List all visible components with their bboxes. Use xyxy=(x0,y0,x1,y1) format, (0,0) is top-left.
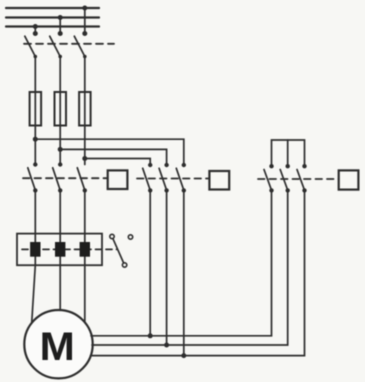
trip linkage (dashed) xyxy=(22,248,117,250)
star bridge bar K3 xyxy=(272,140,305,166)
mechanical link K2 (dashed) xyxy=(137,178,209,180)
disconnect switch Q1 pole 1 xyxy=(25,36,37,58)
mechanical link Q1 (dashed) xyxy=(24,43,114,45)
contactor K2 pole 1 xyxy=(143,163,153,193)
wire overload to motor 3 xyxy=(84,265,86,322)
heater element 3 xyxy=(80,243,89,257)
wire motor terminal 2 to K3 pole2 xyxy=(92,190,288,345)
coil K3 xyxy=(339,170,359,189)
wire bridge middle stub xyxy=(287,140,289,166)
trip contact terminal bottom xyxy=(122,263,126,267)
wire K2 pole1 down xyxy=(149,190,151,335)
overload trip contact blade xyxy=(113,239,124,263)
contactor K1 pole 3 xyxy=(77,168,87,193)
node switch top 3 xyxy=(82,31,87,36)
bus bar L3 xyxy=(6,25,99,27)
mechanical link K1 (dashed) xyxy=(23,177,108,179)
fuse F3 xyxy=(79,92,91,126)
node branch A1 xyxy=(33,137,38,142)
wire branch line 3 to K2 pole 1 xyxy=(85,159,150,166)
coil K2 xyxy=(209,171,229,190)
node U2 junction xyxy=(164,343,169,348)
node branch A3 xyxy=(82,156,87,161)
wire K2 pole2 down xyxy=(166,190,168,345)
wire branch line 1 to K2 pole 3 xyxy=(35,139,184,165)
contactor K3 pole 3 xyxy=(297,164,307,193)
contactor K1 pole 2 xyxy=(53,162,63,192)
coil K1 xyxy=(108,170,128,189)
node V2 junction xyxy=(181,353,186,358)
contactor K2 pole 3 xyxy=(176,163,186,193)
wire motor terminal 3 to K3 pole3 xyxy=(91,190,305,355)
fuse F2 xyxy=(55,92,67,126)
wire phase 1 switch to contactor K1 xyxy=(34,57,36,165)
disconnect switch Q1 pole 2 xyxy=(50,36,62,58)
wire tap phase 1 xyxy=(34,27,36,34)
node tap L1 xyxy=(82,6,87,11)
disconnect switch Q1 pole 3 xyxy=(74,36,86,58)
mechanical link K3 (dashed) xyxy=(258,178,339,180)
contactor K3 pole 2 xyxy=(280,164,290,193)
node W2 junction xyxy=(148,333,153,338)
motor M1 xyxy=(24,310,92,378)
wire through overload 2 xyxy=(59,234,61,266)
wire overload to motor 2 xyxy=(59,265,61,310)
wire overload to motor 1 xyxy=(32,265,36,323)
wire phase 3 switch to contactor K1 xyxy=(84,57,86,165)
heater element 1 xyxy=(31,243,40,257)
wire branch line 2 to K2 pole 2 xyxy=(60,149,166,165)
heater element 2 xyxy=(56,243,65,257)
overload relay F2 body xyxy=(17,234,102,266)
wire K2 pole3 down xyxy=(183,190,185,355)
fuse F1 xyxy=(30,92,41,126)
node branch A2 xyxy=(58,147,63,152)
bus bar L1 xyxy=(6,7,99,9)
node switch top 1 xyxy=(33,31,38,36)
trip contact terminal top left xyxy=(110,234,114,238)
contactor K1 pole 1 xyxy=(28,162,38,192)
wire K1 pole3 to overload xyxy=(84,190,86,233)
node switch top 2 xyxy=(58,31,63,36)
wire phase 2 switch to contactor K1 xyxy=(59,57,61,165)
trip contact terminal top right xyxy=(128,235,132,239)
contactor K2 pole 2 xyxy=(159,163,169,193)
wire through overload 1 xyxy=(34,234,36,266)
wire tap phase 3 xyxy=(84,8,86,34)
wire K1 pole1 to overload xyxy=(34,190,36,233)
wire through overload 3 xyxy=(84,234,86,266)
wire tap phase 2 xyxy=(59,18,61,34)
bus bar L2 xyxy=(6,16,99,18)
node tap L3 xyxy=(33,24,38,29)
wire motor terminal 1 to K3 pole1 xyxy=(91,190,272,335)
node tap L2 xyxy=(58,15,63,20)
wire K1 pole2 to overload xyxy=(59,190,61,233)
contactor K3 pole 1 xyxy=(264,164,274,193)
